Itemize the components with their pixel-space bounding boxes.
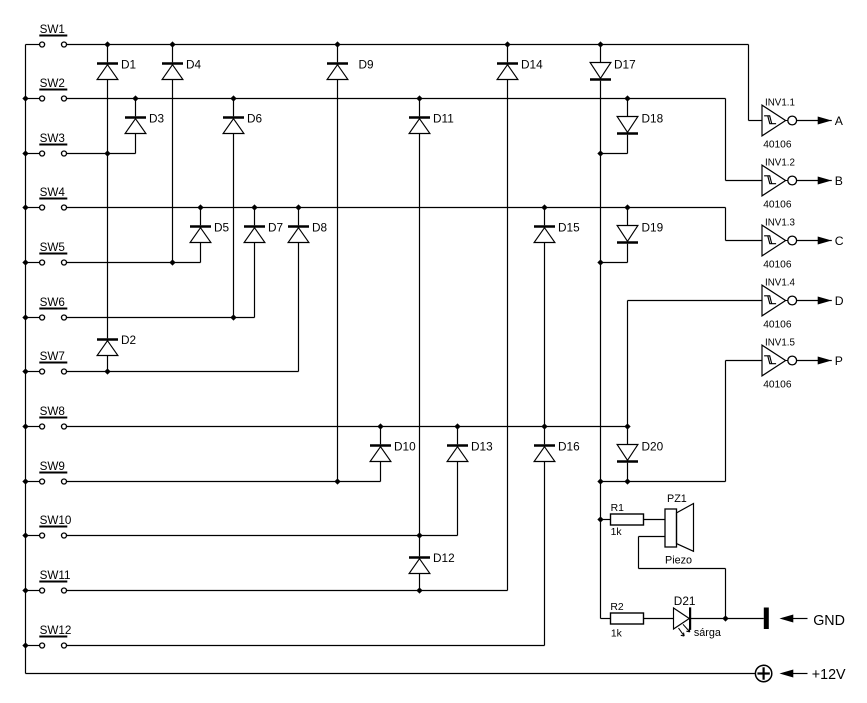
- svg-text:INV1.5: INV1.5: [765, 338, 796, 349]
- svg-text:D13: D13: [471, 440, 493, 454]
- svg-text:INV1.4: INV1.4: [765, 278, 796, 289]
- svg-text:SW10: SW10: [40, 514, 72, 527]
- svg-text:sárga: sárga: [694, 627, 721, 639]
- svg-text:INV1.2: INV1.2: [765, 158, 795, 169]
- svg-text:R1: R1: [611, 503, 625, 514]
- svg-text:D1: D1: [121, 58, 136, 72]
- svg-text:SW5: SW5: [40, 241, 66, 254]
- svg-text:40106: 40106: [763, 139, 792, 150]
- svg-text:40106: 40106: [763, 319, 792, 330]
- svg-text:D10: D10: [394, 440, 416, 454]
- svg-text:D16: D16: [558, 440, 580, 454]
- svg-text:SW1: SW1: [40, 23, 65, 36]
- svg-text:D2: D2: [121, 333, 136, 347]
- svg-text:D8: D8: [312, 221, 328, 235]
- svg-text:INV1.1: INV1.1: [765, 98, 795, 109]
- svg-text:P: P: [835, 354, 843, 368]
- svg-text:A: A: [835, 114, 844, 128]
- svg-text:D5: D5: [214, 221, 230, 235]
- svg-text:D: D: [835, 294, 844, 308]
- svg-text:D6: D6: [247, 112, 263, 126]
- svg-text:D3: D3: [149, 112, 165, 126]
- svg-text:40106: 40106: [763, 259, 792, 270]
- svg-text:40106: 40106: [763, 199, 792, 210]
- svg-text:D19: D19: [642, 221, 664, 235]
- svg-text:D7: D7: [268, 221, 283, 235]
- svg-text:1k: 1k: [611, 527, 623, 538]
- svg-text:SW2: SW2: [40, 77, 65, 90]
- svg-text:D20: D20: [642, 440, 664, 454]
- svg-text:+12V: +12V: [812, 667, 846, 683]
- svg-text:D11: D11: [433, 112, 454, 126]
- svg-text:SW12: SW12: [40, 624, 72, 637]
- svg-text:D17: D17: [614, 58, 636, 72]
- svg-text:GND: GND: [813, 613, 845, 629]
- svg-text:SW4: SW4: [40, 186, 66, 199]
- svg-text:Piezo: Piezo: [665, 555, 692, 567]
- svg-text:INV1.3: INV1.3: [765, 218, 796, 229]
- svg-text:40106: 40106: [763, 379, 792, 390]
- svg-text:R2: R2: [610, 602, 624, 613]
- svg-text:D4: D4: [186, 58, 202, 72]
- svg-text:SW3: SW3: [40, 132, 65, 145]
- svg-text:PZ1: PZ1: [667, 493, 687, 505]
- svg-text:SW9: SW9: [40, 460, 65, 473]
- svg-text:D21: D21: [674, 594, 696, 608]
- svg-text:B: B: [835, 174, 843, 188]
- svg-text:D15: D15: [558, 221, 580, 235]
- svg-text:D14: D14: [521, 58, 543, 72]
- svg-text:C: C: [835, 234, 844, 248]
- svg-text:SW11: SW11: [40, 569, 71, 582]
- svg-text:D9: D9: [359, 58, 374, 72]
- svg-text:SW7: SW7: [40, 350, 65, 363]
- svg-text:D12: D12: [433, 551, 455, 565]
- svg-text:1k: 1k: [611, 629, 623, 640]
- svg-text:D18: D18: [642, 112, 664, 126]
- svg-text:SW6: SW6: [40, 296, 65, 309]
- svg-text:SW8: SW8: [40, 405, 65, 418]
